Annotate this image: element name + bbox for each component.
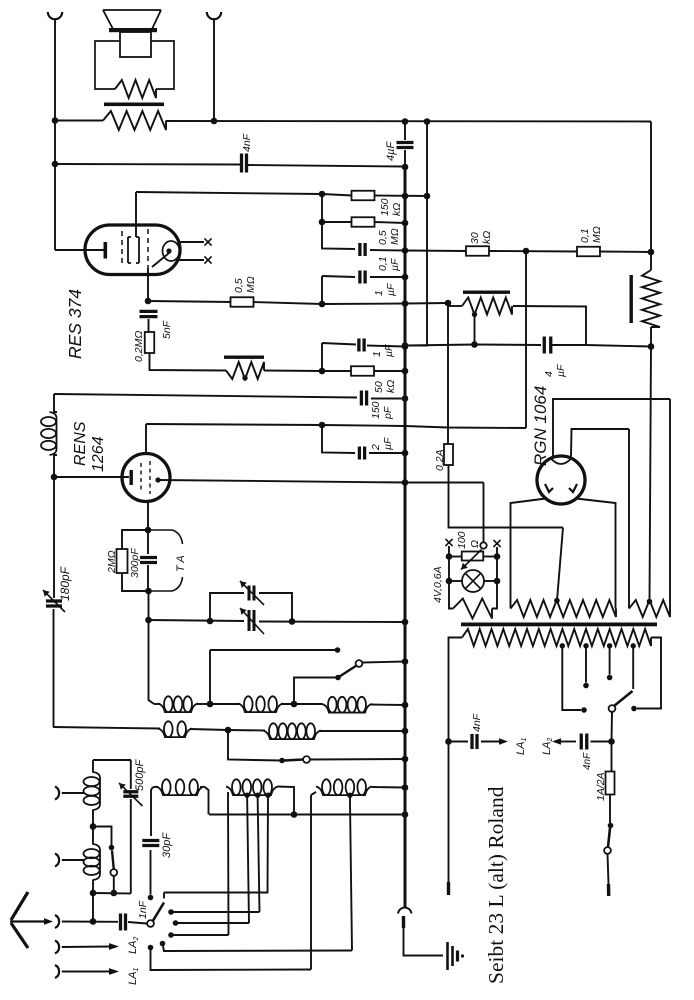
wire 4nF LA2 to switch line [591, 741, 612, 743]
terminal jack ant-tap1 [55, 787, 59, 800]
svg-text:kΩ: kΩ [481, 231, 493, 244]
loudspeaker terminal jack J1 [48, 12, 62, 19]
node ant-893 [90, 890, 97, 897]
capacitor 30 pF [142, 839, 159, 842]
svg-text:100: 100 [456, 531, 468, 549]
wire H left drop [311, 792, 316, 795]
wire tuning line [149, 620, 245, 621]
switch S-ant pivot [110, 869, 117, 876]
node 50k-bus [402, 368, 409, 375]
wire 4nF LA1 [449, 741, 469, 743]
node wave2-bus [402, 756, 409, 763]
wire 2uF drop [322, 425, 355, 453]
wire lamp left [449, 580, 462, 582]
wire to 0.5M box [322, 221, 352, 223]
RENS1264 cathode bar [130, 470, 133, 485]
loudspeaker horn [103, 10, 161, 29]
svg-text:kΩ: kΩ [391, 203, 403, 216]
wire G left drop [227, 792, 230, 935]
switch S-ant arm [112, 851, 114, 870]
coil G taps [244, 793, 249, 798]
node row1-bus [402, 702, 409, 709]
svg-text:0,1: 0,1 [377, 256, 389, 271]
svg-text:4nF: 4nF [471, 713, 483, 732]
output transformer primary on W1 [103, 111, 166, 130]
switch mains contact [608, 823, 614, 829]
capacitor 4nF LA2 [580, 734, 583, 750]
node rail left [446, 553, 453, 560]
tube RES374 envelope [85, 225, 180, 275]
node loop-right [289, 618, 296, 625]
wire 0.1M to right rail [599, 251, 651, 254]
switch mains pivot [604, 847, 611, 854]
switch LA contact 30pF [148, 895, 154, 901]
svg-text:4nF: 4nF [241, 133, 253, 152]
Z3 center tap [647, 599, 653, 605]
svg-text:RENS: RENS [72, 421, 89, 466]
wire divider left [447, 303, 449, 306]
pot terminal X left [445, 539, 452, 546]
capacitor 4 uF rgn [543, 337, 546, 354]
wire 5nF to 0.2M [148, 319, 150, 332]
wire top tie [93, 759, 131, 761]
wire pot rail right [483, 556, 497, 558]
wire row1 left riser [149, 620, 155, 704]
wire right edge down [650, 122, 652, 253]
lamp 4V [462, 570, 484, 592]
node tuneline-bus [402, 619, 409, 626]
node loop-left [207, 618, 214, 625]
svg-text:MΩ: MΩ [591, 226, 603, 243]
svg-text:RGN 1064: RGN 1064 [531, 386, 550, 466]
wire stator line [210, 649, 337, 651]
node 344-bus [402, 342, 409, 349]
switch LA arm [153, 903, 164, 922]
capacitor 2 uF [358, 447, 361, 460]
svg-text:180pF: 180pF [58, 566, 72, 601]
RES374 screen dashed [147, 229, 149, 268]
fuse 1A/2A [611, 742, 613, 772]
wire 344 rail [405, 345, 541, 346]
svg-text:µF: µF [382, 437, 394, 450]
wire 526 riser [525, 251, 527, 428]
terminal jack antenna [55, 915, 59, 928]
svg-text:T A: T A [175, 555, 187, 572]
wire ant tap switch [93, 827, 112, 846]
node ant-921 [90, 918, 97, 925]
wire 30k to 0.1M [489, 250, 578, 253]
wire 1uF to bus [370, 276, 405, 278]
pickup TA bracket [148, 530, 183, 591]
RENS1264 screen dashed [149, 461, 151, 494]
RGN1064 anode lead 1 [553, 399, 670, 457]
wire contact to coil [294, 678, 338, 705]
node 0.5M-bus [402, 220, 409, 227]
RES374 cathode lead down [147, 268, 149, 301]
svg-text:30: 30 [469, 232, 481, 244]
svg-text:0,5: 0,5 [233, 278, 245, 293]
RES374 filament leads+X [179, 241, 204, 243]
node primary-left-4nF [445, 738, 452, 745]
wire 563 to Z2 tap [557, 528, 563, 601]
svg-text:MΩ: MΩ [389, 228, 401, 245]
svg-text:0,1: 0,1 [579, 228, 591, 243]
node tap-344 [471, 341, 478, 348]
wire tap1 [562, 646, 581, 710]
loudspeaker field winding [115, 80, 156, 98]
svg-text:1264: 1264 [90, 436, 107, 472]
wire 893 rail [93, 892, 131, 895]
wire 30pF column [151, 787, 153, 836]
resistor 0,2 MOhm [145, 332, 155, 353]
wire 1uF2 to bus [367, 346, 405, 347]
svg-text:4nF: 4nF [582, 752, 593, 770]
wire bus-483 [405, 482, 484, 484]
node anode-322 [319, 191, 326, 198]
RENS1264 anode dot [155, 477, 160, 482]
interstage transformer core bar [224, 356, 264, 359]
wire arrow LA1 [481, 741, 499, 743]
switch LA pivot [147, 920, 154, 927]
RENS1264 bottom lead [147, 501, 149, 530]
node 150k-bus [402, 193, 409, 200]
wire row1 [154, 703, 160, 705]
wire LA c4 [163, 944, 353, 952]
wire grid col2 [148, 591, 150, 620]
svg-text:4: 4 [543, 371, 555, 377]
node 371-322 [319, 368, 326, 375]
RGN1064 anode lead 2 [571, 429, 629, 457]
coil G [226, 787, 278, 796]
wire bleeder bottom [650, 327, 652, 347]
wire divider right [513, 306, 586, 345]
terminal jack ant-tap2 [55, 854, 59, 867]
variable capacitor C-trim1 [248, 586, 251, 601]
antenna coil lower [93, 844, 100, 880]
node row1-294 [291, 701, 298, 708]
switch voltage selector arm [614, 691, 633, 706]
wire tapH [350, 795, 352, 950]
node divider-526 [523, 248, 530, 255]
capacitor 1 uF second [357, 339, 360, 352]
node 303-448 [445, 300, 452, 307]
switch S-wave2 arm [285, 760, 304, 761]
wire 150pF to bus [371, 398, 405, 400]
resistor 150 kOhm [352, 191, 375, 201]
node right rail 252 [648, 249, 655, 256]
wire 150pF long [54, 394, 357, 398]
node RENS cathode-54 [51, 474, 58, 481]
wire 4uF to 651 [586, 345, 651, 347]
svg-text:150: 150 [370, 401, 382, 419]
wire W2 [55, 163, 240, 166]
coil RF choke [50, 412, 57, 455]
wire selector down [611, 712, 614, 742]
wire tap3 [609, 646, 611, 675]
wire cathode row [148, 301, 233, 302]
coil D [158, 729, 192, 738]
node band-bus [402, 658, 409, 665]
svg-text:1: 1 [373, 290, 385, 296]
node 424-322 [319, 422, 326, 429]
wire fuse down [449, 465, 564, 528]
wire RENS cathode [54, 476, 129, 478]
wire grid col [147, 530, 149, 554]
wire mains lead [608, 854, 609, 884]
svg-text:µF: µF [555, 364, 567, 377]
fuse 0,2 A [444, 444, 453, 465]
RENS1264 top lead [145, 424, 147, 454]
resistor 0,1 MOhm [577, 247, 600, 257]
pot wiper circle [480, 542, 486, 548]
node W1-bustop [402, 118, 409, 125]
wire 0.5M to bus [374, 222, 405, 223]
wire 303 to fuse [447, 303, 449, 444]
node W1-left [52, 117, 59, 124]
node 150k-427 [424, 193, 431, 200]
interstage dot [242, 375, 247, 380]
variable capacitor 180 pF [46, 599, 62, 602]
wire bus 30k line [405, 250, 466, 253]
svg-text:5nF: 5nF [161, 320, 173, 339]
node 150pF-bus [402, 395, 409, 402]
switch LA contacts right [168, 909, 174, 915]
wire LA c3 [171, 934, 229, 936]
loudspeaker terminal jack J2 [207, 12, 221, 19]
svg-text:MΩ: MΩ [245, 276, 257, 293]
coil H [316, 787, 372, 796]
node 322-304 [319, 301, 326, 308]
svg-text:4V,0,6A: 4V,0,6A [432, 566, 444, 603]
RENS1264 grid dashed [140, 463, 142, 492]
node 1uF-bus [402, 274, 409, 281]
wire Z3 right [669, 399, 671, 603]
svg-text:kΩ: kΩ [385, 380, 397, 393]
RES374 grid dashed [121, 231, 123, 267]
node W1-bus2 [424, 118, 431, 125]
svg-text:1: 1 [371, 351, 383, 357]
node W1-J2 [211, 118, 218, 125]
capacitor 5nF [140, 310, 158, 313]
RGN1064 anode cup [551, 458, 572, 464]
svg-text:150: 150 [379, 198, 391, 216]
svg-text:1A/2A: 1A/2A [595, 772, 607, 801]
node rail-bus [402, 811, 409, 818]
wire wiper drop [483, 483, 485, 543]
heater winding Z1 [453, 599, 492, 619]
wire 1uF row [322, 276, 355, 277]
coil C [322, 704, 372, 713]
wire S-ant down [113, 876, 115, 893]
wire tap2 [585, 646, 587, 683]
variable capacitor C-trim2 [248, 610, 251, 631]
switch mains arm [608, 828, 610, 847]
wire 0.1uF to bus [370, 249, 405, 252]
output transformer core [104, 103, 164, 107]
coil B [238, 704, 283, 713]
variable capacitor 500 pF [123, 790, 138, 793]
wire 500pF column [130, 760, 132, 789]
wire G right drop [278, 787, 294, 815]
node row3-bus [402, 784, 409, 791]
wire 427 column [426, 122, 428, 197]
wire 150k to bus [374, 195, 427, 198]
loudspeaker neck [120, 32, 151, 57]
wire RENS anode long [146, 424, 526, 428]
wire W1 speaker line [55, 120, 103, 122]
wire 322 down to 0.1uF [322, 222, 355, 249]
bleeder bar [630, 275, 633, 323]
interstage transformer winding [226, 362, 264, 379]
node 651-346 [648, 343, 655, 350]
coil A [158, 704, 198, 713]
RGN1064 filament lead right [576, 499, 616, 604]
capacitor 0,1 uF [358, 243, 361, 256]
wire primary left [449, 638, 463, 895]
wire row2 [53, 727, 160, 729]
antenna symbol [11, 892, 28, 948]
svg-text:4µF: 4µF [385, 141, 397, 161]
node rail-294 [291, 811, 298, 818]
svg-text:0,2A: 0,2A [434, 449, 446, 471]
wire arrow LA2 [552, 738, 561, 745]
node ant-826 [90, 823, 97, 830]
trimmer loop [210, 593, 244, 621]
svg-text:RES 374: RES 374 [65, 289, 85, 359]
switch S-wave2 contact [279, 758, 285, 764]
HV winding Z3 [629, 600, 670, 617]
RES374 anode plate [128, 237, 139, 263]
divider core bar [463, 291, 510, 294]
RGN1064 filament lead left [511, 499, 547, 604]
svg-text:Ω: Ω [469, 540, 481, 548]
node tune junction [145, 617, 152, 624]
coil F [156, 787, 204, 796]
ground symbol [446, 942, 449, 970]
wire 54 column [53, 477, 55, 598]
svg-text:µF: µF [383, 344, 395, 357]
wire node to 150k [322, 194, 352, 196]
node RENS grid junction [145, 527, 152, 534]
wire interstage to 50k [264, 370, 322, 373]
node row1-210 [207, 701, 214, 708]
switch S-ant contact [109, 845, 115, 851]
svg-text:2MΩ: 2MΩ [106, 550, 118, 574]
primary winding [462, 629, 651, 646]
wire 2M loop [122, 530, 148, 549]
wire 210 drop [209, 650, 211, 704]
node RENS anode-bus [402, 479, 409, 486]
switch S-band contact [335, 675, 341, 681]
bleeder resistor vertical [642, 270, 660, 327]
wire 1uF2 row [321, 343, 323, 371]
wire anode RES374 to node [136, 192, 322, 194]
wire primary right [637, 638, 661, 709]
rectifier filament winding Z2 [511, 600, 617, 617]
wire 322 down to 0.5M [321, 194, 323, 222]
svg-text:2: 2 [370, 444, 382, 451]
svg-text:Seibt 23 L (alt) Roland: Seibt 23 L (alt) Roland [484, 786, 508, 984]
node grid bottom [145, 588, 152, 595]
svg-text:pF: pF [382, 406, 394, 420]
wire tap4 arm line [632, 646, 634, 689]
svg-text:300pF: 300pF [129, 548, 141, 578]
RES374 anode lead up [135, 192, 137, 237]
node row2-228 [225, 727, 232, 734]
wire LA top contact [164, 891, 268, 894]
svg-text:0,5: 0,5 [377, 230, 389, 245]
node rail right [494, 553, 501, 560]
capacitor 1 nF [119, 914, 122, 931]
switch S-band pivot [356, 660, 363, 667]
wire 1nF to pivot [128, 922, 147, 924]
switch voltage selector right contact [631, 706, 637, 712]
node row2-bus [402, 728, 409, 735]
svg-text:1nF: 1nF [137, 900, 149, 919]
node cathode-bus [402, 300, 409, 307]
wire rail right down [492, 557, 497, 609]
bus main vertical [404, 167, 407, 908]
svg-text:50: 50 [373, 381, 385, 393]
capacitor 300 pF [140, 556, 157, 559]
wire to ground [404, 916, 444, 956]
node bus-W2 [402, 164, 409, 171]
wire 0.2M down corner [150, 353, 227, 371]
terminal jack LA1-left [55, 941, 59, 954]
wire RENS anode to bus [158, 480, 405, 483]
wire tapG1 [247, 795, 249, 923]
wire F right to 814 rail [204, 787, 209, 815]
node 2uF-bus [402, 450, 409, 457]
tube RENS1264 envelope [122, 454, 170, 502]
svg-text:µF: µF [389, 258, 401, 271]
primary taps [560, 643, 565, 648]
node 1uF2-bus [402, 343, 409, 350]
node 322-222 [319, 219, 326, 226]
RGN1064 filament hooks [545, 484, 577, 492]
svg-text:0,2MΩ: 0,2MΩ [133, 331, 145, 362]
svg-text:µF: µF [385, 283, 397, 296]
coil E [263, 731, 321, 740]
coil H tap [347, 793, 352, 798]
wire LA c1 [171, 911, 260, 913]
wire lamp right [484, 580, 497, 582]
RES374 filament diagonal [152, 253, 169, 267]
loudspeaker frame [95, 41, 174, 89]
terminal jack LA2-left [55, 965, 59, 978]
wire pivot to bus [362, 662, 405, 663]
divider winding [462, 298, 512, 315]
capacitor 150 pF [360, 391, 363, 406]
switch S-band arm [338, 666, 357, 678]
wire rail left down [449, 557, 453, 609]
tube RGN1064 envelope [537, 456, 585, 504]
wire ant coil link [92, 760, 94, 773]
wire LA c2 [176, 922, 250, 924]
Z2 center tap [554, 598, 560, 604]
wire from J1 down left rail [54, 19, 56, 251]
transformer core [461, 623, 657, 627]
wire wave2 pivot to bus [310, 758, 405, 761]
capacitor 4nF LA1 [470, 734, 473, 749]
wire 322 col 276-304 [321, 276, 323, 304]
wire tapG3 [267, 795, 270, 892]
svg-text:500pF: 500pF [134, 759, 146, 791]
wire 2uF to bus [369, 452, 405, 454]
divider tap [472, 312, 477, 317]
capacitor 1 uF [358, 271, 361, 284]
antenna arrow [10, 920, 45, 922]
